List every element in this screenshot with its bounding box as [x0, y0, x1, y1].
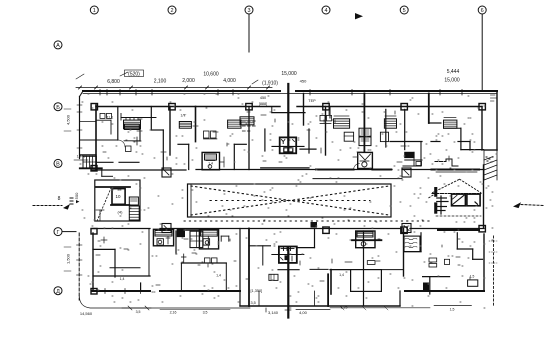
hidden dotted line below ramp	[184, 220, 430, 222]
left balcony strip lines	[80, 121, 97, 123]
bottom wall left half	[92, 290, 150, 292]
elevator upper Y mark	[282, 140, 285, 144]
l2 door bracket	[221, 235, 229, 237]
l2 mid wall y263	[181, 262, 226, 264]
window ticks top edge	[99, 90, 101, 96]
u4 center stack boxes	[359, 128, 371, 136]
grid bubble column 1	[90, 6, 98, 14]
grid bubble column 6	[478, 6, 486, 14]
u4 wall x385.8	[385, 109, 387, 147]
section line col 6	[481, 14, 483, 91]
l1 wall x115	[114, 249, 116, 277]
left outer balcony line upper	[79, 97, 81, 159]
u1 stair area hatch	[124, 120, 141, 129]
l1 wall y249.4	[93, 248, 115, 250]
building top edge wall	[83, 90, 280, 92]
l4 stair box	[356, 231, 375, 248]
bottom center ticks	[265, 308, 267, 312]
u5 bath cluster	[405, 152, 414, 157]
u5 wall y141.5	[390, 141, 422, 143]
corridor door square right bottom	[402, 224, 411, 233]
right gable box 1	[452, 194, 466, 206]
right gable bottom faint	[436, 215, 481, 217]
u5 wall y141.5 seg3	[458, 141, 470, 143]
bottom center protrusion	[239, 291, 241, 306]
elevator upper inner box	[284, 148, 293, 152]
right gable stair marks	[437, 197, 447, 199]
svg-text:6,800: 6,800	[107, 79, 120, 85]
svg-text:500: 500	[74, 192, 79, 199]
corridor top edge thick segments	[316, 169, 354, 171]
wall below lower elevator	[278, 269, 299, 271]
elevator lower side marks	[281, 258, 284, 261]
grid bubble row Г	[54, 228, 62, 236]
u2 radiator left	[179, 122, 191, 129]
right upper step	[484, 149, 497, 151]
u1 lower-left rooms	[80, 154, 96, 156]
svg-text:1,500: 1,500	[66, 253, 71, 264]
left margin dim text lower	[66, 253, 71, 264]
u1 stair vertical ticks	[125, 118, 127, 121]
svg-text:1,4: 1,4	[120, 277, 125, 281]
elevator upper crossbar	[272, 145, 304, 147]
center axis thick line lower	[287, 248, 289, 318]
l3 wall x314.5	[314, 229, 316, 248]
svg-text:3,140: 3,140	[268, 310, 279, 315]
u2 radiator right	[228, 120, 241, 128]
u3 wall y112.6	[272, 112, 305, 114]
l1 interior marks	[101, 239, 107, 241]
grid wall x482 upper	[481, 107, 483, 151]
svg-text:5: 5	[403, 8, 406, 14]
l3 wall x328 thick	[327, 274, 329, 306]
center elevator box lower	[279, 247, 297, 263]
hatch dots patch	[486, 157, 493, 162]
svg-text:Д: Д	[56, 289, 60, 295]
right gable left bar upper	[435, 188, 437, 197]
l4 room box bottom	[351, 270, 382, 292]
l2 kitchen fixtures	[205, 258, 211, 263]
svg-text:1,5: 1,5	[450, 308, 455, 312]
corridor door square left top	[162, 168, 171, 177]
lower band grid nodes	[91, 289, 97, 295]
right gable box 2	[467, 194, 480, 206]
ramp diagonal dotted 2	[191, 186, 389, 215]
u4 stair box	[358, 152, 373, 168]
u1 bottom thick wall	[80, 167, 102, 169]
north arrow top	[355, 13, 363, 19]
right edge hatch strip	[484, 157, 497, 181]
right dashed strip	[493, 236, 495, 307]
left small dim 500	[74, 192, 79, 203]
svg-text:1,25: 1,25	[341, 306, 348, 310]
svg-text:8: 8	[58, 196, 61, 202]
u5 step wall mid	[435, 161, 446, 163]
bottom wall right part	[405, 290, 484, 292]
scan speckle noise	[80, 94, 497, 308]
right edge mid	[483, 165, 485, 228]
svg-text:15,000: 15,000	[281, 71, 297, 77]
u4 door arc	[354, 164, 360, 170]
svg-text:4,500: 4,500	[66, 114, 71, 125]
l1 dark box at corridor	[177, 229, 184, 237]
svg-text:1ЛГ: 1ЛГ	[181, 114, 187, 118]
left block mid wall	[111, 204, 129, 206]
svg-text:450: 450	[300, 79, 307, 84]
svg-text:15,000: 15,000	[444, 78, 460, 84]
u1 wall y130	[151, 129, 163, 131]
l2 boundary wall x176	[175, 231, 177, 254]
l2 bay box	[190, 231, 203, 247]
protrusion inner ticks	[258, 291, 260, 306]
u1 wall x151.3	[150, 107, 152, 131]
ramp inner left edge	[190, 184, 192, 217]
l3 wall y245.8 left	[249, 245, 270, 247]
u1 mid marks	[133, 140, 141, 142]
l4 thick crossbar	[352, 239, 382, 241]
bottom outer rounded line	[79, 296, 250, 308]
elevator lower hatch row	[281, 248, 294, 250]
u3 tick center	[287, 109, 289, 113]
svg-text:Б: Б	[56, 105, 60, 111]
right edge upper block	[496, 91, 498, 150]
grid bubble column 5	[400, 6, 408, 14]
l4 wall y269.6	[330, 269, 351, 271]
grid bubble row В	[54, 159, 62, 167]
u2 stair box	[202, 152, 219, 169]
svg-text:2,100: 2,100	[154, 79, 167, 85]
left wall lower	[92, 233, 94, 291]
l5 bracket fixtures	[429, 258, 437, 262]
grid bubble column 3	[245, 6, 253, 14]
svg-text:5,444: 5,444	[447, 69, 460, 75]
leader marks	[120, 72, 128, 76]
u1 wall x140 lower seg	[139, 126, 141, 141]
u4 wall x330	[329, 107, 331, 119]
u2 mid fixtures	[204, 131, 210, 138]
u1 vertical wall x117.8	[117, 107, 119, 141]
left block stair hatch	[129, 206, 139, 220]
l2 wall x181.4	[180, 263, 182, 291]
svg-text:1: 1	[93, 8, 96, 14]
l3 wall y248.4 right	[298, 247, 315, 249]
u1 left strip fixtures	[100, 113, 105, 118]
ramp diagonal dotted 1	[191, 186, 389, 215]
u4 mid fixtures	[344, 132, 353, 141]
u1 door arc	[118, 140, 125, 147]
u5 wall x460.9	[460, 128, 462, 149]
l4 center riser	[363, 231, 365, 306]
upper rail line right	[313, 178, 402, 180]
center axis thick line upper	[287, 84, 289, 151]
u3 lower walls	[264, 129, 266, 151]
l5 small box bottom right	[468, 280, 478, 286]
u5 wall y149.6	[461, 149, 484, 151]
u3 radiator left	[240, 117, 254, 125]
l3 small boxes	[269, 274, 278, 280]
u1 wall x163.3	[162, 130, 164, 170]
left margin dim text upper	[66, 114, 71, 125]
l4 mid fixtures	[367, 261, 375, 265]
svg-text:1,4: 1,4	[216, 274, 221, 278]
corridor corner node TL	[91, 166, 97, 172]
u2 door dashes	[242, 120, 255, 122]
left block entry marks	[96, 209, 104, 211]
corridor door square left bottom	[162, 224, 171, 233]
top edge inner line	[83, 93, 497, 95]
right edge lower	[483, 234, 485, 291]
l3 stub	[310, 268, 328, 270]
left block room 10	[112, 189, 125, 205]
l1 stair box lower	[153, 229, 173, 246]
elevator upper dashes	[289, 139, 292, 141]
interior ghost marks	[96, 110, 470, 285]
left outer lower dashed	[78, 233, 80, 300]
u5 wall y141.5 seg2	[431, 141, 440, 143]
bottom dim line ticks	[122, 307, 151, 309]
l3 wall x262.8	[262, 246, 264, 265]
elevator lower dark blob	[285, 256, 289, 260]
u4 left step walls	[300, 148, 316, 150]
svg-text:Г: Г	[57, 230, 60, 236]
interior wall band upper	[96, 106, 280, 108]
l1 wall x149	[148, 229, 150, 277]
svg-text:3,5: 3,5	[136, 310, 141, 314]
section arrow right	[513, 202, 544, 208]
svg-text:1,4: 1,4	[339, 273, 344, 277]
section line col 3	[248, 14, 250, 52]
left wall window ticks	[77, 104, 82, 106]
u1 wall y140.8 seg2	[124, 140, 140, 142]
svg-text:(1,910): (1,910)	[262, 81, 278, 87]
svg-text:10,600: 10,600	[203, 72, 219, 78]
u5 wall x404.7	[404, 109, 406, 149]
left stair block outline	[95, 180, 140, 221]
l5 dark corner marks	[424, 283, 429, 291]
top dimension line with ticks	[76, 87, 272, 89]
l2 wall x240	[239, 229, 241, 292]
u2 small marks right	[220, 161, 225, 163]
left dim marks under balcony	[74, 159, 88, 161]
grid bubble row Д	[54, 287, 62, 295]
tie line row 4	[62, 231, 76, 233]
svg-text:10: 10	[115, 194, 121, 199]
svg-text:4: 4	[324, 8, 327, 14]
corridor inner line right	[436, 171, 477, 173]
svg-text:3,5: 3,5	[251, 301, 256, 305]
grid wall x403.5 lower	[403, 229, 405, 277]
l5 interior walls	[456, 233, 458, 249]
svg-text:450: 450	[260, 96, 266, 100]
u1 radiator box	[125, 124, 140, 129]
corridor bottom edge thick segments	[438, 229, 479, 231]
svg-text:[888]: [888]	[259, 102, 267, 106]
l5 corner room	[423, 276, 450, 278]
u5 wall x421 upper	[420, 142, 422, 167]
l2 wall x226.3	[225, 263, 227, 291]
left block small box B	[129, 197, 138, 205]
svg-text:А: А	[56, 43, 60, 49]
u5 thick wall x428.8	[428, 94, 430, 124]
svg-text:2,000: 2,000	[182, 78, 195, 84]
u5 radiator center	[444, 120, 457, 128]
center elevator box upper	[280, 137, 297, 153]
l5 wall y251.6	[404, 251, 421, 253]
u5 step wall	[429, 122, 441, 124]
l1 wall y267.8	[110, 267, 140, 269]
l1 wall y276	[93, 275, 150, 277]
grid node squares on band	[91, 104, 97, 110]
l5 wall x421	[420, 233, 422, 252]
l4 boundary x331	[330, 270, 332, 294]
grid bubble row А	[54, 41, 62, 49]
left lower wall window ticks	[77, 244, 83, 246]
corridor door square right top	[402, 168, 411, 177]
u3 brackets right	[320, 115, 325, 121]
dark box corridor bottom x317	[311, 223, 317, 228]
u3 wall x303.5	[303, 94, 305, 126]
svg-text:[1,350]: [1,350]	[251, 289, 263, 293]
u1 wall x170	[169, 107, 171, 156]
u4 center riser line	[363, 94, 365, 153]
svg-text:(4): (4)	[118, 210, 124, 215]
l5 bottom outer line	[434, 305, 471, 307]
right dashed strip marks	[489, 240, 497, 242]
u2 lower walls	[188, 144, 190, 169]
svg-text:TEP: TEP	[308, 99, 316, 103]
svg-text:2,16: 2,16	[170, 311, 177, 315]
grid bubble column 4	[322, 6, 330, 14]
svg-text:6: 6	[481, 8, 484, 14]
svg-text:2: 2	[170, 8, 173, 14]
grid bubble column 2	[168, 6, 176, 14]
svg-text:4,000: 4,000	[223, 78, 236, 84]
l3 thick wall x249	[248, 229, 250, 307]
right gable left bar lower	[435, 203, 437, 213]
ramp crossed rectangle	[188, 184, 392, 217]
corridor corner node BL	[91, 229, 97, 235]
svg-text:1,5: 1,5	[470, 275, 475, 279]
u4 radiator left	[334, 119, 350, 128]
corridor bottom edge	[92, 228, 150, 230]
left wall upper main	[95, 105, 97, 170]
grid wall x325.5 upper	[325, 107, 327, 156]
bottom dim line right	[330, 307, 430, 309]
u3 wall x271.8 stub	[271, 107, 273, 113]
u5 corner marks top-right	[490, 94, 495, 96]
svg-text:4,00: 4,00	[299, 310, 308, 315]
l2 stair box	[199, 230, 218, 249]
svg-text:11.1: 11.1	[107, 116, 114, 120]
u5 wall y128.2 seg	[444, 127, 461, 129]
svg-text:В: В	[56, 162, 60, 168]
section arrow left	[33, 196, 73, 210]
grid wall x249 upper	[248, 107, 250, 170]
u4 radiator right	[384, 119, 396, 128]
ramp mid dotted	[210, 200, 370, 202]
l4 wall y269.6 right	[381, 269, 403, 271]
svg-text:3,5: 3,5	[203, 311, 208, 315]
grid bubble row Б	[54, 103, 62, 111]
elevator lower crossbar	[272, 254, 304, 256]
u1 bottom wall y162.3	[96, 161, 113, 163]
left block top wall	[96, 186, 130, 188]
bottom wall window ticks	[104, 289, 106, 294]
right gable dotted roof	[433, 179, 460, 193]
right gable base dash-dot	[432, 193, 481, 195]
svg-text:3: 3	[247, 8, 250, 14]
u2 boundary wall x195.5	[195, 107, 197, 142]
l1 wall x140.6 tick	[140, 283, 142, 291]
left block diagonal dotted	[97, 188, 111, 221]
corridor top edge	[92, 169, 186, 171]
u1 small room marks	[126, 146, 132, 152]
l4 bath box right	[404, 236, 420, 252]
svg-text:14,560: 14,560	[80, 311, 93, 316]
